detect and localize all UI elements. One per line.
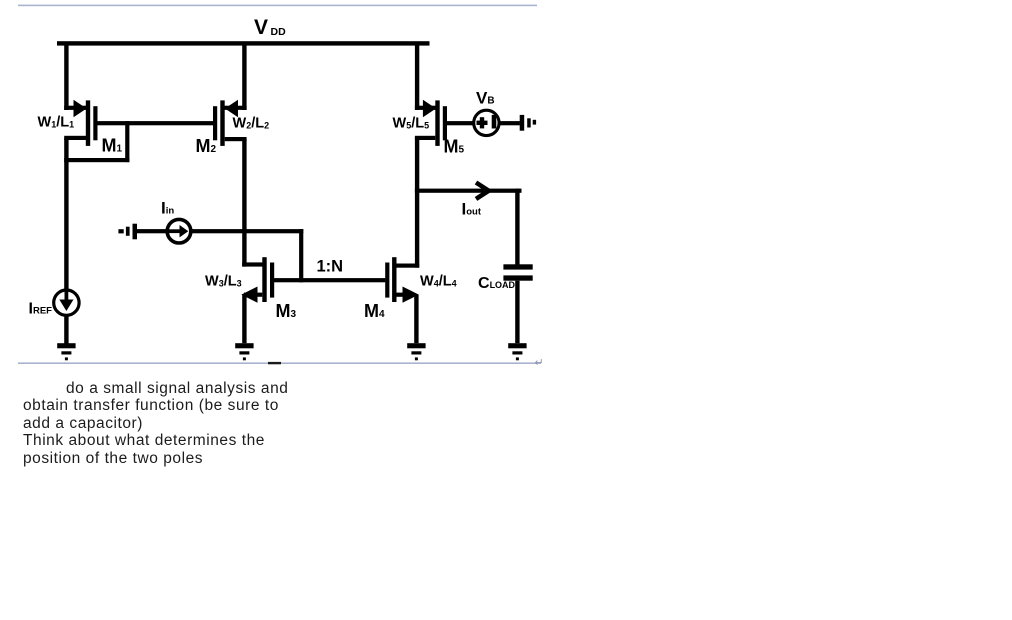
input terminal symbol xyxy=(118,224,137,240)
wire M5 drain to M4 drain xyxy=(415,137,419,268)
wire Iin to gate drop xyxy=(191,229,304,233)
caption text xyxy=(23,380,288,468)
wire M1 drain down to IREF xyxy=(64,138,68,289)
wire VDD to M2 source xyxy=(242,44,246,110)
Iout arrow xyxy=(476,183,489,199)
VDD rail xyxy=(57,41,430,45)
transistor M1 xyxy=(64,100,97,146)
transistor M2 xyxy=(213,100,247,146)
ground under CLOAD xyxy=(508,343,526,360)
wire VB to battery terminal xyxy=(500,121,520,125)
bottom border xyxy=(18,362,541,364)
capacitor CLOAD xyxy=(503,264,532,280)
current source Iin xyxy=(167,219,191,243)
svg-text:1:N: 1:N xyxy=(317,258,344,276)
transistor M5 xyxy=(415,100,447,146)
wire M2 drain down to M3 drain xyxy=(242,139,246,267)
wire M4 source to ground xyxy=(414,295,418,344)
wire M3 source to ground xyxy=(242,295,246,344)
wire M1/M2 gate lead xyxy=(95,121,217,125)
current source IREF xyxy=(54,289,79,315)
svg-text:W4/L4: W4/L4 xyxy=(420,274,457,290)
ground under M3 xyxy=(235,343,253,360)
svg-text:W1/L1: W1/L1 xyxy=(38,115,75,131)
transistor M4 xyxy=(385,257,419,303)
wire CLOAD to ground xyxy=(515,281,519,344)
top border xyxy=(18,5,537,7)
wire Iout corner down to CLOAD xyxy=(515,189,519,265)
wire gate drop vertical xyxy=(299,229,303,282)
wire Iout horizontal xyxy=(415,189,522,193)
voltage source VB xyxy=(474,110,499,135)
wire M3/M4 gate bus xyxy=(274,278,386,282)
ground under IREF xyxy=(57,343,75,360)
wire terminal to Iin xyxy=(137,229,167,233)
wire VDD to M1 source xyxy=(64,44,68,110)
ground under M4 xyxy=(407,343,425,360)
svg-text:↵: ↵ xyxy=(535,357,544,369)
wire IREF to ground xyxy=(64,316,68,344)
wire diode connection horizontal xyxy=(64,158,129,162)
stray dash mark xyxy=(268,362,281,364)
wire VDD to M5 source xyxy=(415,44,419,110)
svg-text:W3/L3: W3/L3 xyxy=(205,274,242,290)
wire M5 gate to VB xyxy=(447,121,474,125)
svg-text:W5/L5: W5/L5 xyxy=(393,116,430,132)
battery terminal symbol xyxy=(520,115,536,131)
wire diode connection vertical xyxy=(125,121,129,162)
transistor M3 xyxy=(241,257,274,303)
svg-text:W2/L2: W2/L2 xyxy=(233,116,270,132)
